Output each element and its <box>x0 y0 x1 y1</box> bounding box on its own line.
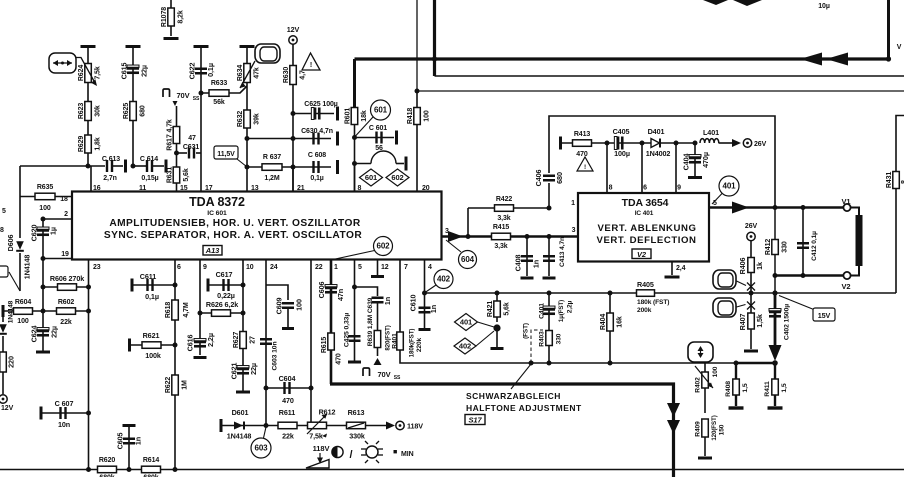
capacitor C402 with output arrow <box>774 293 777 345</box>
svg-text:C621: C621 <box>230 363 239 380</box>
svg-text:22k: 22k <box>282 432 294 441</box>
arrow marker R639 bottom <box>374 358 382 365</box>
diode D601 <box>220 419 223 432</box>
wire y363 <box>529 361 534 366</box>
svg-text:16k: 16k <box>617 316 624 328</box>
svg-text:C 601: C 601 <box>369 125 387 132</box>
svg-text:R634: R634 <box>237 65 244 82</box>
svg-text:R627: R627 <box>233 332 240 349</box>
resistor R621 <box>128 339 131 352</box>
capacitor C425 <box>349 336 361 341</box>
svg-text:V2: V2 <box>842 282 851 291</box>
svg-text:1n: 1n <box>532 260 541 268</box>
pointer circle 402 <box>425 285 436 293</box>
svg-text:C412 0,1µ: C412 0,1µ <box>811 231 818 261</box>
svg-text:VERT. ABLENKUNG: VERT. ABLENKUNG <box>597 223 696 234</box>
wire x775 column <box>774 208 776 294</box>
resistor R407 <box>750 293 752 349</box>
svg-text:0,15µ: 0,15µ <box>141 175 158 182</box>
wire with bridge arc to terminal <box>355 163 372 165</box>
capacitor C401 <box>548 293 550 330</box>
svg-text:39k: 39k <box>254 113 261 125</box>
svg-text:/: / <box>350 449 353 461</box>
svg-text:C605: C605 <box>116 433 125 450</box>
node 604 <box>459 251 477 269</box>
capacitor C604 <box>266 387 311 389</box>
node 601 <box>371 100 391 120</box>
svg-text:C 607: C 607 <box>55 399 74 408</box>
svg-text:4,7M: 4,7M <box>183 302 190 317</box>
ground <box>521 277 534 280</box>
ground <box>164 37 179 40</box>
svg-text:5,6k: 5,6k <box>183 168 190 181</box>
svg-text:V2: V2 <box>637 250 647 259</box>
ground <box>348 361 361 364</box>
svg-text:2,2µ: 2,2µ <box>566 300 573 313</box>
wire thick vertical to top right <box>887 0 890 59</box>
svg-text:180k (FST): 180k (FST) <box>637 299 669 306</box>
svg-text:D401: D401 <box>648 127 665 136</box>
capacitor C606 <box>325 285 337 288</box>
resistor R411 <box>774 363 776 406</box>
wire thick segment y363 <box>736 362 775 365</box>
svg-text:7: 7 <box>404 264 408 271</box>
ground <box>194 45 209 48</box>
resistor R612 preset <box>308 422 327 429</box>
svg-text:5: 5 <box>358 264 362 271</box>
svg-text:1µ: 1µ <box>49 227 58 235</box>
ground <box>236 391 250 394</box>
svg-text:C624: C624 <box>30 326 39 343</box>
warning triangle 2 <box>577 157 593 171</box>
TV screen symbol top <box>255 44 280 63</box>
resistor R601 <box>354 107 356 193</box>
svg-text:R618: R618 <box>165 302 172 319</box>
diode D606 <box>16 241 24 250</box>
pointer circle 601 <box>356 117 374 136</box>
svg-text:18k: 18k <box>361 110 368 122</box>
svg-text:R404: R404 <box>600 314 607 331</box>
warning triangle <box>302 53 320 70</box>
pin 4 wire <box>424 260 426 329</box>
ground <box>240 45 255 48</box>
capacitor C617 <box>207 279 210 292</box>
svg-text:C606: C606 <box>317 282 326 299</box>
svg-text:19: 19 <box>61 251 69 258</box>
ground <box>729 406 744 409</box>
svg-text:R415: R415 <box>493 224 510 231</box>
svg-text:C401: C401 <box>538 303 545 319</box>
svg-text:401: 401 <box>722 182 736 191</box>
resistor R406 <box>750 241 752 293</box>
svg-text:8: 8 <box>609 185 613 192</box>
svg-text:10n: 10n <box>58 420 70 429</box>
svg-text:C609: C609 <box>275 298 284 315</box>
svg-text:22k: 22k <box>60 319 72 326</box>
svg-text:0,1µ: 0,1µ <box>145 292 159 301</box>
wire thick frame <box>330 384 674 477</box>
capacitor C412 <box>802 208 804 276</box>
arrow to 26V <box>732 139 741 147</box>
TV screen symbol mid2 <box>713 298 736 317</box>
svg-text:C604: C604 <box>279 374 296 383</box>
ground <box>698 457 712 460</box>
svg-text:R633: R633 <box>211 80 228 87</box>
wire vertical x468 <box>467 208 469 237</box>
ground <box>768 406 783 409</box>
svg-text:C425 0,33µ: C425 0,33µ <box>343 313 350 347</box>
resistor R627 <box>240 332 247 349</box>
pin 7 wire <box>400 260 736 364</box>
pin 22 wire <box>310 260 312 421</box>
capacitor C620 <box>42 219 44 352</box>
svg-text:470: 470 <box>576 151 588 158</box>
svg-text:100µ: 100µ <box>614 149 630 158</box>
wire bottom rail <box>0 469 904 471</box>
pointer circle 602 to pin1 <box>333 251 375 260</box>
svg-text:R611: R611 <box>279 408 295 417</box>
svg-text:27: 27 <box>250 336 257 344</box>
ground <box>126 45 141 48</box>
svg-text:56k: 56k <box>213 99 225 106</box>
deflection coil bar <box>856 215 863 266</box>
svg-text:R431: R431 <box>886 172 893 189</box>
resistor R431 <box>893 172 900 189</box>
svg-text:TDA 8372: TDA 8372 <box>189 195 245 209</box>
op-amp U1 TDA8372 IC601 box <box>72 192 442 260</box>
svg-text:C402 1500µ: C402 1500µ <box>783 304 790 340</box>
svg-text:R421: R421 <box>487 301 494 318</box>
resistor R611 <box>266 425 308 427</box>
capacitor C408 <box>525 234 530 239</box>
resistor R614 <box>142 466 161 473</box>
node 603 <box>251 438 271 458</box>
svg-text:R409: R409 <box>694 421 701 437</box>
svg-text:100: 100 <box>295 299 304 311</box>
svg-text:10: 10 <box>246 264 254 271</box>
svg-text:8: 8 <box>358 185 362 192</box>
pin 19 wire <box>43 258 72 260</box>
terminal R413 left <box>559 137 562 150</box>
svg-text:12V: 12V <box>287 25 300 34</box>
pin 10 wire <box>242 260 244 393</box>
resistor R618 <box>172 300 179 320</box>
resistor R418 <box>416 91 418 193</box>
wire thick from rail to R601 <box>353 59 356 107</box>
wire y166 left section <box>20 165 105 167</box>
resistor R613 <box>326 425 390 427</box>
node 402 <box>434 270 453 289</box>
svg-text:601: 601 <box>365 173 377 182</box>
pointer from text to line <box>511 362 533 390</box>
svg-text:47: 47 <box>188 135 196 142</box>
capacitor C631 <box>177 152 188 154</box>
svg-text:602: 602 <box>391 173 403 182</box>
svg-text:220k: 220k <box>416 337 423 352</box>
svg-text:C408: C408 <box>514 255 523 272</box>
svg-text:R1078: R1078 <box>161 7 168 27</box>
svg-text:24: 24 <box>270 264 278 271</box>
svg-text:7,5k: 7,5k <box>309 432 323 441</box>
terminal left <box>2 305 5 317</box>
resistor R635 <box>20 196 72 198</box>
resistor R403 <box>546 331 553 346</box>
svg-text:1,8k: 1,8k <box>95 137 102 150</box>
capacitor C624 <box>37 328 49 331</box>
pin 12 stub <box>377 260 379 276</box>
capacitor C413 <box>547 234 552 239</box>
svg-text:A13: A13 <box>205 246 220 255</box>
pin 5 wire <box>354 260 356 361</box>
svg-text:SS: SS <box>193 96 200 102</box>
capacitor C614 <box>133 165 146 167</box>
resistor R617 <box>176 106 178 153</box>
svg-text:R401: R401 <box>391 333 398 349</box>
wiper arrow R402 <box>695 366 713 388</box>
svg-text:1n: 1n <box>134 437 143 445</box>
svg-text:26V: 26V <box>754 141 767 148</box>
svg-text:R620: R620 <box>99 457 116 464</box>
resistor R625 <box>130 102 137 121</box>
svg-text:70V: 70V <box>176 91 189 100</box>
svg-text:47k: 47k <box>254 67 261 79</box>
svg-text:IC 601: IC 601 <box>207 210 227 217</box>
resistor R626 <box>200 312 243 314</box>
svg-text:470: 470 <box>336 353 343 365</box>
svg-text:23: 23 <box>93 264 101 271</box>
op-amp U2 TDA3654 IC401 box <box>578 193 709 262</box>
svg-text:R402: R402 <box>694 377 701 393</box>
node 602 <box>374 237 393 256</box>
svg-text:22µ: 22µ <box>140 65 149 77</box>
capacitor C603 <box>260 339 272 344</box>
diode 1N4148 left edge <box>2 311 4 322</box>
svg-text:D606: D606 <box>6 235 15 252</box>
ground <box>194 356 207 359</box>
svg-text:D601: D601 <box>232 408 249 417</box>
svg-text:R602: R602 <box>58 299 75 306</box>
wire thick +supply rail top <box>355 57 889 60</box>
wire loop top y116 <box>548 183 550 208</box>
svg-text:MIN: MIN <box>401 451 414 458</box>
svg-text:C630 4,7n: C630 4,7n <box>301 128 333 135</box>
svg-text:680: 680 <box>555 172 564 184</box>
capacitor C406 <box>543 176 555 181</box>
svg-text:R606 270k: R606 270k <box>50 274 84 283</box>
svg-text:2,2µ: 2,2µ <box>206 333 215 347</box>
contrast icon <box>332 446 343 457</box>
resistor R622 <box>172 375 179 395</box>
ground <box>491 347 504 350</box>
svg-text:15V: 15V <box>818 311 831 320</box>
svg-text:V: V <box>897 44 902 51</box>
svg-text:1: 1 <box>334 264 338 271</box>
pin 16 wire <box>90 166 92 192</box>
pointer diamond 402 <box>476 331 494 346</box>
svg-text:2,4: 2,4 <box>676 265 686 272</box>
svg-text:R601: R601 <box>345 108 352 125</box>
hold symbol (horizontal arrow icon) <box>49 53 76 73</box>
svg-text:4: 4 <box>428 264 432 271</box>
wire thin rail y91 <box>416 0 418 91</box>
svg-text:150: 150 <box>718 424 725 435</box>
svg-text:330: 330 <box>555 333 562 344</box>
svg-text:402: 402 <box>437 275 451 284</box>
svg-text:1k: 1k <box>755 262 764 270</box>
svg-text:SCHWARZABGLEICH: SCHWARZABGLEICH <box>466 391 561 401</box>
resistor R422 <box>468 207 549 209</box>
svg-text:1N4148: 1N4148 <box>23 255 32 280</box>
svg-text:R408: R408 <box>725 381 732 397</box>
pin 1 wire thick <box>330 260 333 385</box>
pointer circle 604 <box>446 240 461 252</box>
svg-text:R631: R631 <box>167 167 174 184</box>
capacitor C404 <box>694 143 696 176</box>
pin 8 wire <box>354 164 356 192</box>
svg-text:R630: R630 <box>283 67 290 84</box>
svg-text:9: 9 <box>677 185 681 192</box>
svg-text:IC 401: IC 401 <box>635 210 654 217</box>
resistor R632 <box>246 86 248 193</box>
svg-text:20: 20 <box>422 185 430 192</box>
resistor R639 <box>377 303 379 330</box>
svg-text:8: 8 <box>0 227 4 234</box>
capacitor C630 <box>247 138 331 140</box>
wire thick vertical from top at x434 <box>433 0 436 76</box>
svg-text:C 614: C 614 <box>140 156 158 163</box>
svg-text:22µ: 22µ <box>50 326 59 338</box>
resistor R413 <box>561 142 608 144</box>
svg-text:R613: R613 <box>348 408 365 417</box>
svg-text:1n: 1n <box>383 297 392 305</box>
svg-text:100: 100 <box>712 366 719 377</box>
pin 8 wire <box>606 143 608 193</box>
svg-text:R413: R413 <box>574 131 591 138</box>
svg-text:0,1µ: 0,1µ <box>310 175 323 182</box>
svg-text:HALFTONE ADJUSTMENT: HALFTONE ADJUSTMENT <box>466 403 582 413</box>
svg-text:680: 680 <box>140 105 147 117</box>
capacitor C616 <box>194 339 206 342</box>
svg-text:C631: C631 <box>183 144 200 151</box>
supply 12V bottom left <box>0 395 7 403</box>
label 15V boxed <box>779 296 815 311</box>
svg-text:C625 100µ: C625 100µ <box>304 101 338 108</box>
svg-text:R622: R622 <box>165 377 172 394</box>
svg-text:C405: C405 <box>613 127 630 136</box>
svg-text:C 608: C 608 <box>308 152 326 159</box>
svg-text:100: 100 <box>424 110 431 122</box>
svg-text:10µ: 10µ <box>818 3 830 10</box>
svg-text:R612: R612 <box>319 408 336 417</box>
ground <box>543 277 556 280</box>
svg-text:C620: C620 <box>30 225 39 242</box>
resistor R633 <box>201 92 232 94</box>
pin 2,4 stub and ground <box>671 262 673 276</box>
ground <box>665 276 680 279</box>
label 70Vss waveform <box>163 89 170 97</box>
pin 9 wire <box>199 260 201 356</box>
svg-text:220: 220 <box>7 356 16 368</box>
node 602 <box>386 169 409 186</box>
label 70Vss bottom <box>363 368 370 376</box>
capacitor C601 <box>355 137 395 139</box>
diode D401 <box>642 142 695 144</box>
svg-text:100: 100 <box>39 205 51 212</box>
node 401 <box>455 314 478 331</box>
resistor R615 <box>328 333 335 350</box>
svg-text:200k: 200k <box>637 307 652 314</box>
resistor R401 <box>397 332 404 350</box>
preset junction blob <box>493 324 500 331</box>
resistor R624 (preset) <box>87 47 89 101</box>
wiper arrow R612 <box>307 414 327 434</box>
pin 24 wire <box>265 260 267 426</box>
pin 23 wire <box>88 260 90 470</box>
resistor R402 preset <box>704 362 706 372</box>
arrow and 118V supply <box>386 422 395 430</box>
svg-text:470: 470 <box>282 396 294 405</box>
svg-text:SS: SS <box>394 375 401 381</box>
svg-text:R617 4,7k: R617 4,7k <box>167 119 174 151</box>
wire x20 column <box>19 166 21 238</box>
svg-text:402: 402 <box>459 342 471 351</box>
svg-text:R422: R422 <box>496 196 513 203</box>
svg-text:R 637: R 637 <box>263 154 281 161</box>
svg-text:602: 602 <box>376 242 390 251</box>
svg-text:R621: R621 <box>143 331 160 340</box>
resistor 220 left edge <box>2 336 4 394</box>
wiper arrow R634 <box>240 61 255 88</box>
svg-text:16: 16 <box>93 185 101 192</box>
svg-text:70V: 70V <box>377 370 390 379</box>
ground <box>36 351 50 354</box>
capacitor C609 <box>266 285 288 300</box>
resistor R408 <box>735 363 737 406</box>
svg-text:6: 6 <box>643 185 647 192</box>
badge at left edge with pointer <box>9 272 20 291</box>
svg-text:30k: 30k <box>95 105 102 117</box>
svg-text:17: 17 <box>205 185 213 192</box>
svg-text:SYNC. SEPARATOR, HOR. A. VERT.: SYNC. SEPARATOR, HOR. A. VERT. OSCILLATO… <box>104 230 362 241</box>
wire thin rail y76 <box>435 75 904 77</box>
svg-text:4,7: 4,7 <box>300 70 307 80</box>
svg-text:R626 6,2k: R626 6,2k <box>206 300 238 309</box>
svg-text:R625: R625 <box>123 103 130 120</box>
svg-text:5,6k: 5,6k <box>504 302 511 315</box>
capacitor C610 <box>419 308 431 313</box>
ground <box>688 176 702 179</box>
svg-text:!: ! <box>310 62 312 69</box>
node 401 <box>719 176 739 196</box>
svg-text:C622: C622 <box>188 63 197 80</box>
resistor R421 <box>496 293 498 322</box>
svg-text:22: 22 <box>315 264 323 271</box>
svg-text:12: 12 <box>381 264 389 271</box>
svg-text:9: 9 <box>203 264 207 271</box>
svg-text:(FST): (FST) <box>522 323 529 339</box>
badge A13 <box>203 246 222 256</box>
svg-text:26V: 26V <box>745 223 758 230</box>
TV screen symbol vertical arrows <box>688 342 713 362</box>
svg-text:1N4148: 1N4148 <box>7 300 14 323</box>
svg-text:1,5k: 1,5k <box>755 314 764 328</box>
badge V2 <box>632 249 651 259</box>
capacitor C607 <box>40 407 43 420</box>
svg-text:47n: 47n <box>336 289 345 301</box>
pointer diamond 401 <box>478 322 495 327</box>
resistor R631 <box>176 153 178 193</box>
pin 21 wire <box>292 167 294 192</box>
